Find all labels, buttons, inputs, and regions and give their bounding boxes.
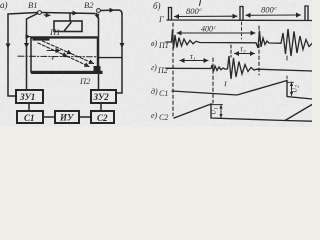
dashed gridline at big echo (286, 56, 288, 60)
dashed gridline tau2 left (230, 45, 232, 57)
specimen bottom thick edge (31, 71, 103, 74)
dimension 800c first (175, 15, 238, 17)
block IU (55, 111, 79, 123)
block C2 (91, 111, 114, 123)
dimension tau1 (180, 60, 208, 62)
dimension tau2 (235, 53, 255, 55)
dashed gridline at P1 echo (258, 26, 260, 75)
G row baseline (167, 19, 312, 22)
C2 waveform ramp 1 (174, 104, 312, 121)
wire IU to C2 (79, 116, 91, 118)
dimension 400c (177, 32, 255, 34)
wire ZU2 to C2 (100, 103, 102, 111)
P2 waveform (166, 56, 312, 79)
wire arrow on top line 1 (44, 14, 50, 17)
transducer P2 bar (94, 66, 101, 74)
U2 annotation (288, 81, 294, 83)
center dash-dot axis line (18, 55, 96, 58)
dashed gridline at pulse2 (241, 22, 243, 39)
wire from B2 down to P2 and ZU2 (97, 14, 99, 91)
node B2 (97, 9, 101, 13)
wire C1 to IU (43, 116, 55, 118)
transducer P1 bar (33, 37, 50, 41)
generator box G (54, 21, 82, 32)
C2 ramp 2 (285, 105, 312, 121)
wire arrow on top line 2 (71, 12, 77, 14)
dashed gridline at P2 arrival (212, 58, 214, 103)
dashed gridline at pulse1 (172, 23, 174, 116)
wire from top line to G box (69, 13, 71, 21)
node B1 (38, 11, 42, 15)
dimension 800c second (246, 14, 301, 16)
wire left outer vertical to ZU1 (8, 14, 16, 96)
block ZU1 (16, 90, 43, 103)
velocity arrow v (47, 50, 60, 52)
wire from B1 down to P1 and ZU1 (27, 14, 38, 91)
ultrasonic beam dashed arrow 2 (43, 41, 72, 54)
G pulse 2 (240, 7, 243, 21)
G pulse 1 (169, 8, 172, 21)
wire ZU1 to C1 (28, 103, 30, 111)
G pulse 3 (305, 6, 308, 20)
P1 waveform (166, 29, 312, 56)
paper texture (0, 0, 1, 1)
stray scan mark (224, 82, 227, 87)
tick above 800c (200, 1, 201, 6)
wire arrow on top line 3 (108, 9, 114, 11)
U1 annotation (212, 104, 223, 106)
specimen rectangle (31, 37, 98, 72)
C1 waveform ramp (172, 81, 312, 100)
specimen top edge thick (31, 37, 98, 39)
ultrasonic beam dashed arrow 1 (38, 43, 67, 56)
block ZU2 (91, 90, 116, 103)
wire top horizontal line (8, 13, 37, 15)
wire right outer vertical to ZU2 (116, 14, 122, 93)
block C1 (17, 111, 43, 123)
